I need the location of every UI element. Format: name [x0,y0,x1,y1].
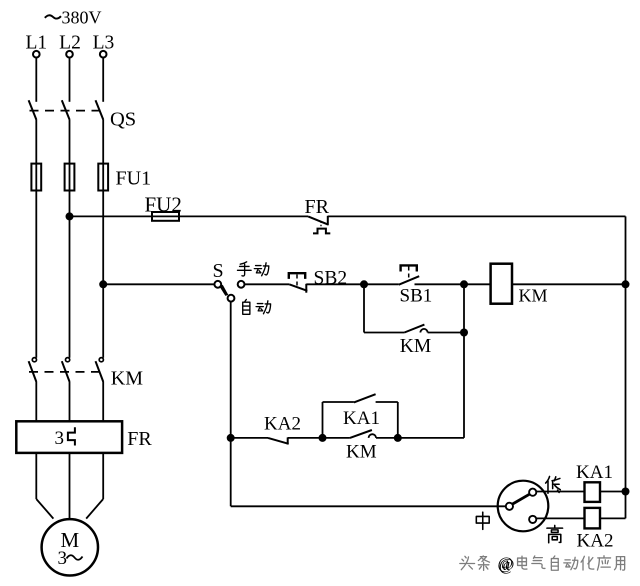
svg-text:FU1: FU1 [116,168,152,190]
svg-text:KM: KM [519,286,548,306]
svg-text:KM: KM [346,442,377,463]
svg-text:FR: FR [127,428,152,450]
svg-text:KM: KM [400,336,431,357]
svg-text:KA1: KA1 [576,462,613,483]
svg-text:SB1: SB1 [400,286,433,307]
svg-text:KA2: KA2 [577,531,614,552]
svg-text:@: @ [499,555,515,574]
svg-text:KA2: KA2 [264,414,301,435]
svg-text:FR: FR [305,196,330,218]
svg-text:QS: QS [110,109,136,131]
svg-text:FU2: FU2 [145,193,182,217]
svg-text:3: 3 [58,548,68,569]
svg-text:KA1: KA1 [343,408,380,429]
svg-text:S: S [212,260,223,282]
svg-text:KM: KM [111,367,143,389]
svg-text:3: 3 [55,428,65,449]
svg-text:SB2: SB2 [314,268,348,289]
svg-text:380V: 380V [62,7,102,27]
